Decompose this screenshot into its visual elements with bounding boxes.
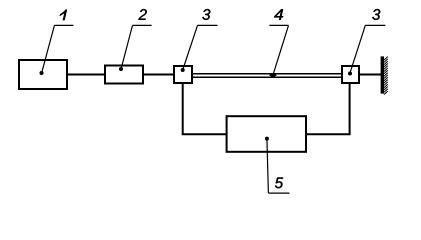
wire clamp3 right to wall bbox=[359, 74, 381, 76]
label 4 arrow on specimen line bbox=[269, 73, 277, 77]
label 5 text bbox=[275, 178, 283, 189]
label 4 text bbox=[274, 9, 283, 20]
label 3 right leader line bbox=[350, 25, 365, 72]
node dot in clamp 3 right bbox=[348, 72, 352, 76]
label 3 right text bbox=[372, 9, 380, 20]
label 1 leader line bbox=[42, 25, 55, 72]
label 5 shelf bbox=[268, 192, 289, 194]
node dot in block 2 bbox=[119, 67, 123, 71]
block 1 (rectangle, component 1) bbox=[19, 60, 67, 89]
node dot in block 1 bbox=[40, 71, 44, 75]
fixed support hatching bbox=[384, 57, 388, 95]
label 4 shelf bbox=[269, 24, 288, 26]
block 5 (rectangle, component 5) bbox=[227, 116, 306, 152]
label 2 shelf bbox=[133, 24, 152, 26]
label 3 left text bbox=[202, 9, 210, 20]
specimen 4 double line (upper) bbox=[192, 73, 342, 75]
label 3 left shelf bbox=[198, 24, 218, 26]
wire block1 to block2 bbox=[67, 74, 105, 76]
specimen 4 double line (lower) bbox=[192, 76, 342, 78]
clamp 3 right (small square) bbox=[342, 66, 359, 83]
block 2 (rectangle, component 2) bbox=[105, 66, 143, 84]
label 3 right shelf bbox=[365, 24, 385, 26]
label 4 leader line bbox=[273, 25, 289, 75]
wire clamp3 left down to block 5 bbox=[183, 83, 226, 134]
node dot in clamp 3 left bbox=[181, 68, 185, 72]
wire block2 to clamp3 left bbox=[143, 74, 175, 76]
label 1 shelf bbox=[54, 24, 73, 26]
node dot in block 5 bbox=[265, 137, 269, 141]
label 1 text bbox=[60, 10, 67, 21]
label 5 leader line bbox=[267, 139, 269, 193]
label 2 leader line bbox=[121, 25, 132, 68]
wire clamp3 right down to block 5 bbox=[306, 83, 350, 134]
clamp 3 left (small square) bbox=[174, 66, 192, 83]
fixed support wall bar bbox=[381, 56, 384, 93]
label 2 text bbox=[138, 9, 146, 20]
label 3 left leader line bbox=[183, 25, 198, 69]
